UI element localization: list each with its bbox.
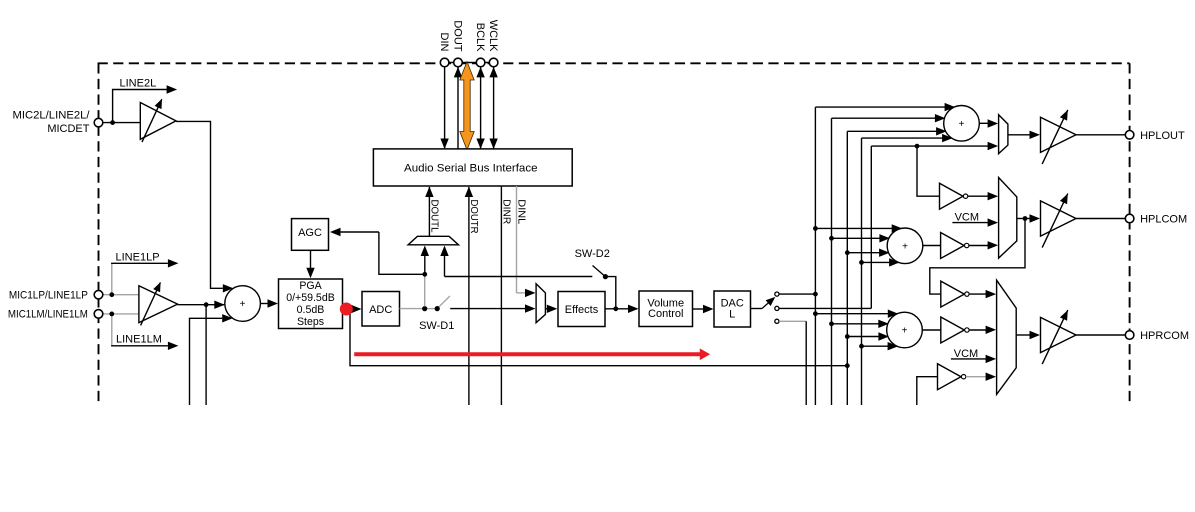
inverter U6 (HPLCOM bottom) (941, 233, 965, 259)
wire: MIC1 amp output into summing node (178, 304, 225, 306)
amplifier U7 HPLCOM driver (1041, 201, 1077, 236)
svg-text:PGA: PGA (299, 280, 322, 292)
svg-text:DINR: DINR (501, 199, 512, 224)
svg-text:VCM: VCM (954, 348, 978, 360)
wire: BCLK bidirectional line (480, 67, 482, 149)
wire: DIN input line into Audio Serial Bus Interface (444, 67, 446, 148)
wire: SW-D1 output to DAC input mux (450, 308, 526, 310)
svg-text:+: + (902, 326, 908, 337)
junction bus line 1 HPLCOM branch (813, 226, 818, 231)
junction on MIC1LM lead (109, 312, 114, 317)
block AGC (292, 219, 329, 251)
junction top contact on bus line 1 (813, 292, 818, 297)
HPRCOM output mux (trapezoid) (997, 280, 1017, 394)
wire: HPRCOM amp output to pin (1076, 334, 1125, 336)
summing node S2 HPLOUT (+) (944, 106, 980, 142)
svg-text:HPRCOM: HPRCOM (1140, 330, 1189, 342)
wire: Volume Control to DAC L (693, 308, 705, 310)
svg-text:+: + (959, 119, 965, 130)
wire: bus line 4 into HPLOUT summing node (862, 137, 952, 139)
svg-text:MIC1LM/LINE1LM: MIC1LM/LINE1LM (8, 309, 88, 321)
bus line 4 vertical (861, 138, 863, 405)
wire: bus line 2 branch into HPRCOM summing node (832, 323, 888, 325)
junction bus line 2 HPRCOM branch (829, 321, 834, 326)
amplifier U4 HPLOUT driver (1041, 117, 1077, 152)
pin DOUT (454, 58, 463, 67)
wire: bottom contact gray stub (779, 320, 806, 322)
bus line 3 (analog record tap) vertical (846, 131, 848, 405)
wire: MIC1LM gray lead to amplifier (103, 313, 140, 315)
svg-text:Steps: Steps (297, 316, 324, 328)
pin MIC1LP/LINE1LP (94, 290, 103, 299)
junction bus line 4 HPLCOM branch (859, 260, 864, 265)
inverter U8 (HPRCOM top) (941, 281, 965, 307)
svg-text:SW-D2: SW-D2 (575, 248, 610, 260)
bidirectional orange data-flow arrow (460, 62, 474, 150)
svg-text:HPLOUT: HPLOUT (1140, 130, 1185, 142)
record mux feeding DOUTL (trapezoid) (408, 236, 458, 245)
wire: top contact to bus line 1 (779, 293, 815, 295)
wire: bus line 3 branch into HPRCOM summing node (847, 336, 887, 338)
svg-text:Audio Serial Bus Interface: Audio Serial Bus Interface (404, 163, 538, 175)
wire: PGA output to ADC (343, 308, 353, 310)
wire: bus line 4 branch into HPLCOM summing node (862, 261, 899, 263)
wire: bottom contact drop to bottom of crop (805, 321, 807, 405)
wire: AGC output down into PGA (310, 251, 312, 269)
wire: HPLCOM mux output to driver amp (1017, 218, 1031, 220)
selector blade from DAC L output (arrow to top contact) (751, 308, 763, 310)
wire: HPLCOM amp output to pin (1076, 218, 1125, 220)
svg-text:0.5dB: 0.5dB (297, 304, 325, 316)
junction bus line 1 HPRCOM branch (813, 311, 818, 316)
wire: bus line 4 branch into HPRCOM summing node (862, 345, 897, 347)
junction record tap on bus line 3 (845, 363, 850, 368)
arrowhead: DINL into DAC input mux (525, 289, 536, 297)
junction bus line 5 / HPLCOM feed riser (915, 144, 920, 149)
HPLOUT output mux (trapezoid) (999, 115, 1008, 154)
wire: input from bottom of crop to inverter U10 (917, 377, 938, 405)
wire: inverter U10 gray output into HPRCOM mux (966, 376, 987, 378)
wire: VCM into HPRCOM mux (951, 358, 987, 360)
wire: HPLOUT summing node output to mux (979, 122, 988, 124)
svg-text:Effects: Effects (565, 304, 599, 316)
svg-text:LINE1LM: LINE1LM (116, 333, 162, 345)
wire: HPRCOM mux output to driver amp (1016, 334, 1030, 336)
summing node S4 HPRCOM (+) (887, 312, 923, 348)
svg-text:DIN: DIN (438, 33, 450, 52)
wire: inverter U9 output into HPRCOM mux (969, 329, 986, 331)
wire: record mux right input from ADC bypass line (444, 255, 446, 277)
wire: MIC1LP gray lead to amplifier (103, 294, 140, 296)
amplifier U11 HPRCOM driver (1041, 317, 1077, 352)
junction Effects output / SW-D2 bypass (613, 306, 618, 311)
DAC input mux (trapezoid) (536, 284, 545, 323)
inverter U5 (HPLCOM top) (940, 183, 964, 209)
block Volume Control (639, 291, 693, 327)
wire: summing node output into PGA (260, 303, 268, 305)
junction HPLCOM mux output feedback tap (1023, 216, 1028, 221)
red highlight arrow along record route (354, 349, 710, 361)
red highlight dot on PGA output node (340, 303, 353, 316)
wire: HPLCOM summing output to inverter (923, 245, 941, 247)
svg-text:DINL: DINL (516, 199, 527, 225)
wire: MIC2L amp output to left summing node (176, 121, 223, 288)
junction bus line 3 HPLCOM branch (845, 250, 850, 255)
wire: WCLK bidirectional line (493, 67, 495, 149)
wire: LINE1LP branch with arrow (111, 262, 168, 264)
wire: LINE1LM branch with arrow (111, 345, 168, 347)
wire: bus line 2 into HPLOUT summing node (832, 117, 944, 119)
wire: HPRCOM summing output to inverter (922, 329, 941, 331)
wire: DAC input mux output to Effects (545, 308, 548, 310)
svg-text:DOUTR: DOUTR (468, 200, 479, 234)
bus line 1 (DAC L select) vertical (814, 107, 816, 405)
pin HPLOUT (1125, 131, 1134, 140)
chip boundary left dashed border (98, 63, 100, 405)
wire: bus line 3 branch into HPLCOM summing node (847, 252, 888, 254)
wire: VCM into HPLCOM mux (952, 222, 988, 224)
svg-text:HPLCOM: HPLCOM (1140, 214, 1187, 226)
inverter U10 (HPRCOM bottom) (938, 364, 962, 390)
svg-text:ADC: ADC (369, 304, 392, 316)
svg-text:LINE1LP: LINE1LP (116, 251, 160, 263)
amplifier U3 MIC1 differential input PGA (139, 286, 178, 323)
wire: record mux left input (from AGC tap) (424, 255, 426, 275)
wire: lower feed into summing node from below (190, 318, 223, 405)
wire: bus line 1 into HPLOUT summing node (815, 106, 953, 108)
wire: SW-D2 to DAC path junction (605, 277, 615, 309)
wire: HPLCOM output feedback down to HPRCOM inverter (930, 219, 1025, 295)
svg-text:SW-D1: SW-D1 (419, 320, 454, 332)
svg-text:MIC1LP/LINE1LP: MIC1LP/LINE1LP (9, 289, 88, 301)
pin BCLK (476, 58, 485, 67)
svg-text:+: + (240, 299, 246, 310)
wire: gray riser to LINE1LP branch (111, 263, 113, 294)
block ADC (362, 292, 400, 327)
wire: bus line 3 into HPLOUT summing node (847, 130, 945, 132)
wire: bus line 1 branch into HPLCOM summing node (815, 227, 900, 229)
svg-text:VCM: VCM (955, 212, 979, 224)
wire: HPLOUT amp output to pin (1076, 134, 1125, 136)
chip boundary top dashed border (98, 62, 1130, 64)
wire: DINR down from bus interface (500, 186, 502, 405)
svg-text:MICDET: MICDET (47, 123, 89, 135)
bus line 2 vertical (831, 118, 833, 405)
inverter U9 (HPRCOM middle) (941, 317, 965, 343)
svg-text:AGC: AGC (298, 227, 322, 239)
wire: inverter U8 output into HPRCOM mux (969, 293, 986, 295)
summing node S1 (+) (225, 286, 261, 322)
HPLCOM output mux (trapezoid) (999, 178, 1017, 259)
pin WCLK (489, 58, 498, 67)
switch SW-D2 (open) (593, 266, 606, 277)
wire: gray riser from record tap junction to SW-D1 (424, 276, 426, 307)
svg-text:+: + (902, 241, 908, 252)
svg-text:LINE2L: LINE2L (120, 78, 157, 90)
wire: record tap down from PGA output and across to right output bus (350, 309, 847, 366)
bus line 5 riser (middle contact to HPLOUT mux) (870, 146, 872, 308)
chip boundary right dashed border (1129, 63, 1131, 405)
wire: DOUTR up to bus interface (468, 187, 470, 405)
selector contact bottom (775, 319, 779, 323)
wire: Effects output to Volume Control (605, 308, 630, 310)
pin DIN (440, 58, 449, 67)
wire: DINL (gray) from bus interface down and into DAC input mux (516, 186, 518, 293)
wire: bus line 1 branch into HPRCOM summing node (815, 313, 896, 315)
wire: bus line 2 branch into HPLCOM summing node (832, 237, 889, 239)
wire: inverter U5 output into HPLCOM mux (968, 195, 989, 197)
svg-text:0/+59.5dB: 0/+59.5dB (286, 292, 335, 304)
wire: AGC control input from record path (340, 231, 379, 233)
switch SW-D1 (open) (400, 308, 424, 310)
wire: DOUT output line from Audio Serial Bus Interface (457, 67, 459, 149)
pin MIC2L/LINE2L/MICDET (94, 118, 103, 127)
wire: LINE2L branch with arrow (113, 90, 167, 123)
amplifier U2 MIC2L input PGA (140, 103, 176, 140)
wire: HPLOUT mux output to driver amp (1008, 134, 1031, 136)
wire: bus line 5 into HPLOUT output mux lower input (871, 145, 988, 147)
svg-text:L: L (729, 309, 735, 321)
block U1 Audio Serial Bus Interface (373, 149, 572, 186)
block Effects (558, 292, 605, 327)
wire: MIC2L pin to amplifier input (103, 122, 140, 124)
junction bus line 2 HPLCOM branch (829, 236, 834, 241)
junction bus line 4 HPRCOM branch (859, 344, 864, 349)
svg-text:BCLK: BCLK (474, 23, 486, 52)
wire: inverter U6 output into HPLCOM mux (969, 245, 989, 247)
junction on MIC1 amp output (204, 302, 209, 307)
svg-text:WCLK: WCLK (487, 20, 499, 52)
wire: branch down from MIC1 output junction to bottom of crop (205, 305, 207, 405)
svg-text:DAC: DAC (721, 297, 744, 309)
selector contact middle (775, 306, 779, 310)
wire: DOUTL from left record mux up to bus interface (428, 187, 430, 236)
junction record tap to AGC elbow (422, 272, 427, 277)
wire: middle contact across to riser line 5 (779, 307, 871, 309)
wire: gray riser to LINE1LM branch (111, 314, 113, 346)
pin HPRCOM (1125, 331, 1134, 340)
wire: ADC bypass line across to SW-D2 (445, 276, 593, 278)
pin HPLCOM (1125, 214, 1134, 223)
svg-text:MIC2L/LINE2L/: MIC2L/LINE2L/ (13, 109, 91, 121)
svg-text:Control: Control (648, 308, 683, 320)
wire: riser from bus line 5 junction down to HPLCOM inverter (917, 146, 940, 196)
arrowhead: MIC2L feed into summing node (223, 284, 234, 292)
block DAC L (714, 291, 751, 327)
junction on MIC1LP lead (109, 292, 114, 297)
wire: top pin row connector segments (440, 62, 498, 64)
wire: AGC feed elbow down to record tap (379, 232, 425, 274)
junction bus line 3 HPRCOM branch (845, 334, 850, 339)
svg-text:DOUT: DOUT (451, 20, 463, 51)
svg-text:DOUTL: DOUTL (428, 200, 439, 234)
block PGA 0/+59.5dB 0.5dB Steps (279, 279, 343, 329)
summing node S3 HPLCOM (+) (887, 228, 923, 264)
selector contact top (775, 292, 779, 296)
pin MIC1LM/LINE1LM (94, 310, 103, 319)
junction on MIC2L input (110, 120, 115, 125)
